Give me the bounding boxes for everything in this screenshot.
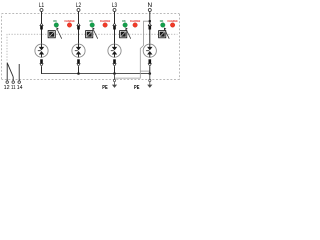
- LED green OK N: [161, 23, 166, 28]
- bypass stub to N: [140, 70, 150, 72]
- svg-text:PE: PE: [134, 85, 140, 91]
- spark gap L3: [108, 44, 121, 57]
- svg-text:OK: OK: [122, 20, 126, 23]
- wire: [149, 12, 151, 24]
- LED red CHARGE L2: [103, 23, 108, 28]
- PE terminal 2: [149, 74, 151, 80]
- wire: [114, 12, 116, 24]
- disconnector F3: [113, 23, 116, 29]
- monitoring box L2: [86, 31, 93, 38]
- terminal N: [148, 9, 151, 12]
- LED red CHARGE L3: [133, 23, 138, 28]
- node L3-rail: [113, 72, 116, 75]
- svg-text:CHARGE: CHARGE: [100, 20, 111, 23]
- svg-text:CHARGE: CHARGE: [167, 20, 178, 23]
- terminal L3: [113, 9, 116, 12]
- svg-text:CHARGE: CHARGE: [130, 20, 141, 23]
- wire: [78, 30, 80, 45]
- monitoring box N: [159, 31, 166, 38]
- terminal 14: [18, 64, 20, 81]
- node N-rail: [149, 72, 152, 75]
- wire to rail: [149, 67, 151, 74]
- wire to rail: [78, 67, 80, 74]
- wire to rail: [114, 67, 116, 74]
- disconnector lower N: [148, 59, 151, 66]
- svg-text:14: 14: [17, 85, 23, 91]
- svg-text:OK: OK: [160, 20, 164, 23]
- disconnector lower L2: [77, 59, 80, 66]
- wire: [114, 30, 116, 45]
- node N-bypass: [149, 20, 151, 22]
- LED red CHARGE N: [170, 23, 175, 28]
- spark gap N-PE: [143, 44, 156, 57]
- node L2-rail: [77, 72, 80, 75]
- wire: [41, 12, 43, 24]
- wire: [149, 30, 151, 45]
- disconnector F2: [77, 23, 80, 29]
- svg-text:PE: PE: [102, 85, 108, 91]
- arrow L2: [92, 28, 97, 39]
- svg-text:OK: OK: [53, 20, 57, 23]
- PE terminal 1: [114, 74, 116, 80]
- disconnector FN: [148, 23, 151, 29]
- spark gap L1: [35, 44, 48, 57]
- monitoring box L3: [120, 31, 127, 38]
- terminal L1: [40, 9, 43, 12]
- outer dashed enclosure: [2, 14, 180, 80]
- arrow L3: [125, 28, 130, 39]
- LED red CHARGE L1: [67, 23, 72, 28]
- terminal 12: [6, 63, 8, 81]
- disconnector lower L1: [40, 59, 43, 66]
- inner dashed mechanical linkage line: [7, 34, 178, 60]
- svg-text:12: 12: [4, 85, 10, 91]
- terminal 11 with lever: [12, 77, 14, 81]
- svg-text:CHARGE: CHARGE: [64, 20, 75, 23]
- wire to rail: [41, 67, 43, 74]
- svg-text:OK: OK: [89, 20, 93, 23]
- disconnector F1: [40, 23, 43, 29]
- wire: [78, 12, 80, 24]
- svg-text:11: 11: [11, 85, 16, 91]
- terminal L2: [77, 9, 80, 12]
- arrow L1: [56, 28, 61, 39]
- LED green OK L1: [54, 23, 59, 28]
- disconnector lower L3: [113, 59, 116, 66]
- monitoring box L1: [48, 31, 55, 38]
- bypass wire N to PE1: [115, 21, 150, 78]
- LED green OK L3: [123, 23, 128, 28]
- bottom PE rail: [42, 73, 150, 75]
- spark gap L2: [72, 44, 85, 57]
- wire: [41, 30, 43, 45]
- arrow N: [164, 28, 169, 39]
- LED green OK L2: [90, 23, 95, 28]
